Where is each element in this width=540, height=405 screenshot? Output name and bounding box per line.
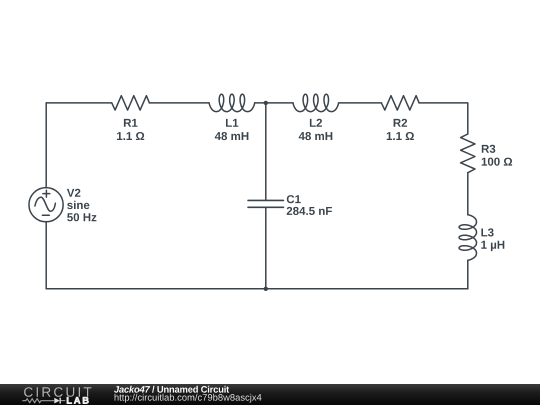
logo diode triangle [54,398,59,404]
label R2 [394,119,408,127]
logo CIRCUIT text [24,387,91,397]
inductor L2 [293,94,339,111]
label C1 [287,195,301,203]
V2 minus sign [42,214,49,216]
value L3 [481,241,504,251]
wire L3 to bottom-right corner [467,260,469,289]
wire R1 to L1 [149,102,209,104]
logo LAB text [67,397,89,404]
wire left top vertical [45,103,47,188]
label V2 [67,189,81,197]
capacitor C1 top plate [248,199,284,201]
label L2 [310,119,322,127]
value R1 [117,132,144,140]
logo wire after diode [61,400,65,402]
label R3 [482,145,496,153]
value V2 sine [67,201,89,209]
label R1 [124,119,138,127]
inductor L3 [459,215,476,261]
resistor R3 [461,134,475,173]
wire middle vertical top [265,103,267,200]
node junction top [264,101,268,105]
logo resistor zigzag glyph [22,398,65,404]
wire top-left horizontal [46,102,112,104]
wire R3 to L3 [467,173,469,215]
value L1 [215,132,249,140]
inductor L1 [209,94,255,111]
footer title Jacko47 / Unnamed Circuit [114,386,229,393]
logo diode bar [59,398,61,404]
value C1 [287,207,332,215]
wire middle vertical bottom [265,207,267,288]
wire left bottom vertical [45,222,47,289]
V2 plus sign [43,190,50,197]
value L2 [299,132,333,140]
node junction bottom [264,287,268,291]
wire R2 to top-right corner down to R3 [419,103,468,134]
wire L2 to R2 [339,102,382,104]
wire bottom horizontal [46,288,468,290]
resistor R1 [112,96,150,110]
capacitor C1 bottom plate [248,206,284,208]
label L1 [226,119,238,127]
value R3 [482,158,512,166]
resistor R2 [381,96,419,110]
label L3 [481,228,493,236]
wire L1 to node A [255,102,293,104]
V2 sine waveform [35,197,56,211]
voltage source V2 circle [29,188,63,222]
value R2 [387,132,414,140]
footer bar background [0,384,540,405]
value V2 50 Hz [67,213,96,221]
footer url line [115,394,262,403]
